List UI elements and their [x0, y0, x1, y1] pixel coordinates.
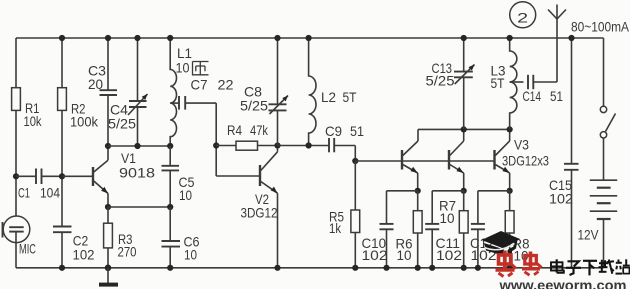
inductor L1 — [170, 38, 192, 145]
node Q3 emitter — [507, 188, 513, 194]
battery GB 12V — [578, 180, 618, 268]
svg-text:9018: 9018 — [119, 165, 155, 181]
node Q3 collector bus — [507, 126, 513, 132]
node Q2 emitter — [461, 188, 467, 194]
wire emitter link C11 — [432, 190, 464, 192]
node C3 bottom bus — [105, 143, 111, 149]
transistor Q3 of V3 3DG12x3 — [495, 129, 550, 190]
node V1 emitter — [105, 204, 111, 210]
resistor R6 — [396, 191, 423, 268]
capacitor C6 — [162, 207, 200, 268]
capacitor C12 — [470, 191, 497, 268]
svg-text:270: 270 — [118, 244, 137, 260]
inductor L3 — [491, 38, 517, 129]
wire base bus output stage — [355, 160, 494, 162]
resistor R8 — [505, 191, 529, 268]
wire left border top segment — [15, 38, 17, 88]
wire base V1 — [62, 175, 92, 177]
wire emitter link to C5/C6 junction — [108, 206, 170, 208]
node Q2 collector bus — [461, 126, 467, 132]
resistor R5 — [329, 161, 360, 268]
node R6 bottom rail — [415, 265, 421, 271]
svg-text:www.eeworm.com: www.eeworm.com — [498, 277, 626, 289]
node R3 bottom rail — [105, 265, 112, 272]
node R7 bottom rail — [461, 265, 467, 271]
wire collector bus V1 — [108, 145, 170, 147]
svg-text:100k: 100k — [70, 113, 99, 129]
svg-text:MIC: MIC — [19, 241, 36, 257]
node C4 bottom bus — [134, 143, 140, 149]
wire collector bus V3 — [418, 128, 510, 130]
watermark text xia — [583, 261, 597, 276]
svg-text:C1: C1 — [18, 185, 30, 201]
wire MIC bottom to rail — [15, 232, 17, 268]
node C1 left — [13, 173, 19, 179]
svg-text:5T: 5T — [343, 89, 357, 105]
node C15 top rail — [568, 35, 574, 41]
resistor R7 — [439, 191, 468, 268]
svg-text:22: 22 — [218, 77, 234, 93]
watermark text dian — [551, 259, 564, 273]
svg-text:10: 10 — [184, 247, 197, 263]
svg-text:20: 20 — [88, 76, 103, 92]
node R4 left — [213, 142, 219, 148]
node R5 bottom rail — [352, 265, 358, 271]
inductor L2 — [309, 38, 357, 146]
ground — [99, 268, 118, 287]
watermark text zhan — [616, 259, 630, 273]
wire left border below R1 — [15, 110, 17, 227]
svg-text:5/25: 5/25 — [108, 116, 136, 132]
node C3 top rail — [105, 35, 111, 41]
capacitor C14 — [510, 75, 564, 104]
svg-text:3DG12: 3DG12 — [241, 205, 278, 221]
node L3 top rail — [507, 35, 513, 41]
svg-text:V3: V3 — [514, 137, 529, 153]
svg-text:5T: 5T — [491, 75, 505, 91]
node V2 collector — [274, 142, 280, 148]
capacitor C2 — [53, 227, 95, 268]
capacitor C9 — [325, 123, 364, 161]
node base V1 — [59, 173, 65, 179]
wire right border to switch — [603, 38, 605, 106]
wire C7 feedback column — [215, 103, 217, 176]
capacitor C3 — [88, 38, 117, 146]
node L2 bottom — [306, 142, 312, 148]
svg-text:102: 102 — [436, 247, 462, 263]
node L1 bottom bus — [167, 143, 173, 149]
watermark hat graphic — [482, 231, 521, 256]
wire R2 column top — [61, 38, 63, 88]
transistor V1 9018 — [93, 146, 155, 207]
svg-text:R4: R4 — [227, 122, 242, 138]
capacitor C1 — [16, 169, 62, 201]
wire R2 to base node — [61, 110, 63, 226]
node Q1 emitter — [415, 188, 421, 194]
node C11 bottom rail — [429, 265, 435, 271]
wire V2 base — [216, 175, 259, 177]
svg-text:10k: 10k — [24, 113, 43, 129]
node R8 bottom rail — [507, 265, 513, 271]
node L2 top rail — [306, 35, 312, 41]
antenna — [548, 5, 566, 83]
wire emitter link C12 — [478, 190, 510, 192]
wire emitter link C10 — [387, 190, 418, 192]
svg-text:80~100mA: 80~100mA — [571, 19, 630, 35]
svg-text:10: 10 — [176, 60, 190, 76]
svg-text:51: 51 — [550, 88, 563, 104]
svg-text:51: 51 — [350, 123, 364, 139]
watermark red bug character 1 — [496, 251, 517, 277]
svg-text:104: 104 — [40, 185, 60, 201]
resistor R1 — [12, 88, 43, 129]
watermark red bug character 2 — [522, 252, 542, 276]
transistor Q1 of V3 — [402, 129, 418, 190]
capacitor C10 — [362, 191, 394, 268]
wire switch to battery — [603, 138, 605, 180]
svg-text:C9: C9 — [325, 123, 342, 139]
variable capacitor C8 — [240, 38, 288, 146]
svg-text:1k: 1k — [329, 220, 342, 236]
node V2 emitter bottom rail — [274, 265, 280, 271]
node R2 top rail — [59, 35, 65, 41]
transistor Q2 of V3 — [449, 129, 464, 190]
capacitor C7 — [170, 77, 234, 110]
svg-text:102: 102 — [549, 190, 573, 206]
wire top rail — [16, 37, 604, 39]
capacitor C5 — [162, 146, 195, 207]
node 2 circled label — [510, 2, 536, 28]
svg-text:10: 10 — [179, 187, 192, 203]
transistor V2 3DG12 — [241, 146, 278, 268]
node C9 R5 base junction — [352, 158, 358, 164]
svg-text:102: 102 — [362, 247, 388, 263]
switch S — [600, 106, 615, 138]
resistor R2 — [58, 88, 99, 130]
node C13 top rail — [461, 35, 467, 41]
node C10 bottom rail — [383, 265, 389, 271]
resistor R3 — [104, 207, 137, 268]
svg-text:C14: C14 — [523, 88, 542, 104]
node L1 top rail — [167, 35, 173, 41]
microphone MIC — [3, 216, 37, 257]
svg-text:12V: 12V — [578, 227, 600, 243]
svg-text:102: 102 — [73, 247, 95, 263]
svg-text:5/25: 5/25 — [426, 72, 455, 88]
variable capacitor C4 — [108, 38, 148, 146]
watermark text zai — [599, 260, 615, 274]
resistor R4 — [216, 122, 277, 150]
node C2 bottom rail — [59, 265, 65, 271]
label turns character for L1 — [193, 62, 209, 75]
variable capacitor C13 — [426, 38, 475, 129]
node C12 bottom rail — [475, 265, 481, 271]
node C5 C6 junction — [167, 204, 173, 210]
capacitor C11 — [425, 191, 462, 268]
svg-text:10: 10 — [440, 210, 455, 226]
svg-text:L2: L2 — [321, 89, 336, 105]
wire collector bus to C9 — [278, 145, 330, 147]
node C8 top rail — [274, 35, 280, 41]
svg-text:C7: C7 — [191, 77, 208, 93]
capacitor C15 — [549, 38, 579, 268]
wire bottom rail — [16, 267, 604, 269]
node C6 bottom rail — [167, 265, 173, 271]
svg-text:2: 2 — [517, 9, 528, 25]
node C4 top rail — [134, 35, 140, 41]
svg-text:10: 10 — [397, 247, 412, 263]
watermark text zi — [566, 261, 581, 275]
svg-text:3DG12x3: 3DG12x3 — [502, 153, 549, 169]
svg-text:47k: 47k — [250, 122, 269, 138]
svg-text:5/25: 5/25 — [240, 98, 268, 114]
